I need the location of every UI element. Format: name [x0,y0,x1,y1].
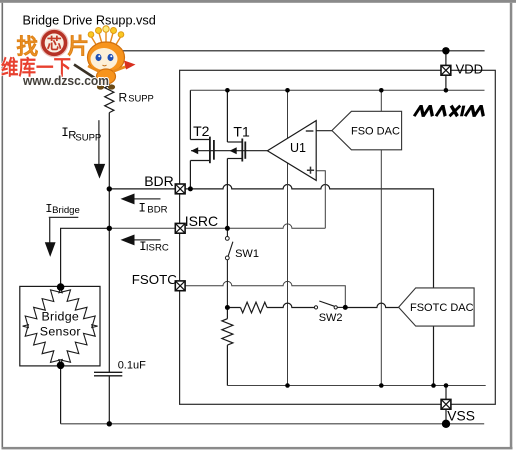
node dot U1 vertical on rail [285,88,290,93]
annotation label I BDR [138,202,167,216]
svg-text:www.dzsc.com: www.dzsc.com [22,73,109,88]
transistor T1 [227,90,245,228]
block FSO DAC [332,111,402,150]
wire SW2 node to FSOTC DAC with hop [345,303,398,307]
wire gate line from T2 through T1 to U1 output [191,150,267,152]
watermark red circle logo [41,29,68,56]
svg-text:FSO DAC: FSO DAC [351,125,400,137]
node dot VDD on rail [444,88,449,93]
svg-text:SUPP: SUPP [128,93,154,104]
node dot lower line left [225,305,230,310]
svg-text:SW1: SW1 [235,248,259,260]
transistor T2 [190,90,214,189]
arrow T1 body [230,147,237,154]
op-amp U1 [267,121,316,181]
IC boundary box [180,70,496,404]
wire ISRC line with hop [109,224,325,228]
capacitor C1 0.1uF plates [94,372,122,376]
svg-text:片: 片 [68,35,90,59]
port BDR [175,184,185,194]
node dot ISRC-left [107,226,112,231]
wire left bus down to capacitor [108,228,110,372]
svg-text:Bridge: Bridge [41,309,79,323]
annotation arrow I RSUPP [94,120,105,178]
switch SW2 [314,301,345,309]
wire RSUPP top lead from rail [108,51,110,86]
port ISRC [175,223,185,233]
svg-text:BDR: BDR [147,204,167,215]
wire capacitor to bottom rail [108,376,110,424]
wire U1 plus input down to ISRC line [316,171,325,229]
svg-text:FSOTC: FSOTC [132,272,177,287]
port FSOTC [175,281,185,291]
wire FSO DAC vertical from rail to bottom rail [380,90,382,385]
resistor horizontal R2 [241,302,268,313]
svg-text:SW2: SW2 [319,312,343,324]
block FSOTC DAC [399,288,475,326]
svg-text:SUPP: SUPP [75,133,101,144]
wire FSOTC line with hops and corner down to SW2 node [180,281,346,307]
wire bridge bottom to ground rail [60,365,62,424]
svg-text:Bridge: Bridge [52,205,80,216]
svg-text:VDD: VDD [456,61,483,76]
bridge sensor block [20,286,100,366]
label RSUPP [119,91,154,105]
resistor RSUPP [105,85,114,112]
wire inner top rail [190,89,484,91]
wire RSUPP bottom lead to BDR node [108,113,110,189]
annotation label I ISRC [139,240,169,254]
wire inner bottom rail [227,385,485,387]
node dot SW2 right [343,305,348,310]
wire BDR line with hops and corner down through FSOTC DAC [109,184,433,385]
svg-text:ISRC: ISRC [146,243,169,254]
svg-text:T2: T2 [193,123,210,139]
port VSS [441,399,451,409]
svg-text:U1: U1 [290,141,306,155]
svg-text:BDR: BDR [144,173,174,189]
node dot bridge bottom [57,362,65,370]
node dot bottom rail BDR corner [431,383,436,388]
svg-text:芯: 芯 [47,35,62,53]
port VDD [441,65,451,75]
annotation arrow I Bridge [45,217,79,257]
switch SW1 [225,228,232,307]
label Bridge Sensor [40,309,81,338]
wire R3 bottom to inner bottom rail [226,345,228,385]
node dot bottom rail under FSO DAC [379,383,384,388]
node dot BDR-left [107,186,112,191]
node dot bottom rail VSS [444,383,449,388]
annotation label I Bridge [45,202,80,216]
svg-text:ISRC: ISRC [185,213,218,229]
svg-text:Sensor: Sensor [40,324,81,338]
arrow T2 body [191,147,198,154]
annotation arrow I ISRC [121,235,161,246]
node dot VDD top rail [442,47,449,54]
svg-text:I: I [138,202,146,216]
annotation arrow I BDR [121,194,161,205]
wire vertical from inner rail through U1 to bottom rail [287,90,289,385]
wire bottom VSS rail [61,423,485,425]
watermark mascot [74,26,136,90]
annotation label I RSUPP [61,126,101,144]
svg-text:Bridge Drive Rsupp.vsd: Bridge Drive Rsupp.vsd [23,13,156,27]
node dot bottom rail under U1 vertical [285,383,290,388]
wire VDD drop to inner rail [445,51,447,91]
svg-text:T1: T1 [233,123,250,139]
node dot FSO DAC on rail [379,88,384,93]
svg-text:0.1uF: 0.1uF [118,359,146,371]
wire VSS drop from bottom rail to port and outer rail [445,386,447,424]
MAXIM logo [414,106,485,117]
wire bridge top to ISRC node [61,228,110,287]
wire SW1 node to resistor R3 top [226,308,228,319]
resistor vertical R3 [222,319,233,345]
svg-text:R: R [119,91,128,105]
wire top VDD rail [109,50,484,52]
svg-text:FSOTC DAC: FSOTC DAC [410,302,474,314]
wire left bus BDR node to ISRC node [108,189,110,228]
node dot VSS ground rail [442,420,450,428]
node dot T1 source on ISRC [225,226,230,231]
wire U1 minus input to FSO DAC [316,130,332,132]
svg-text:VSS: VSS [447,409,475,424]
node dot bridge top [57,283,65,291]
wire lower line resistor to SW2 with hop [227,303,314,307]
node dot capacitor ground [107,421,112,426]
node dot T1 drain on rail [225,88,230,93]
node dot T2 source on BDR [188,186,193,191]
